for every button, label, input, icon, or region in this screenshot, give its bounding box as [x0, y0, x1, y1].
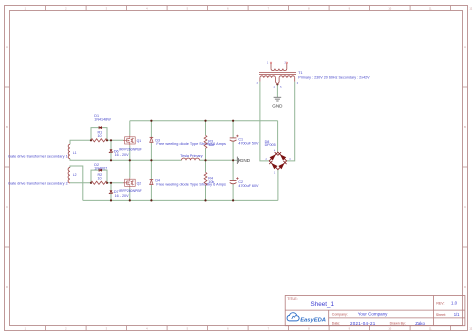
svg-text:C: C: [464, 205, 466, 209]
junction: [90, 182, 92, 184]
svg-text:Q1: Q1: [137, 139, 142, 143]
svg-text:1N4007: 1N4007: [94, 166, 107, 170]
svg-text:Zako: Zako: [415, 321, 425, 326]
junction: [90, 139, 92, 141]
svg-text:Gate drive transformer seconda: Gate drive transformer secondary 2: [8, 181, 68, 185]
bridge diode AC2-plus: [280, 154, 286, 160]
junction: [232, 120, 234, 122]
wire Q2 drain to midpoint: [129, 160, 131, 178]
wire C1 bottom lead: [232, 141, 234, 160]
svg-text:L1: L1: [73, 151, 77, 155]
inductor Tesla Primary: [182, 158, 200, 160]
svg-text:10: 10: [98, 176, 102, 180]
svg-text:16 - 20V: 16 - 20V: [115, 194, 129, 198]
inductor L1: [68, 144, 70, 158]
bridge rectifier D8: [269, 152, 286, 169]
wire top +V rail: [130, 120, 278, 122]
svg-text:1/1: 1/1: [454, 312, 460, 317]
wire D3 top lead: [150, 121, 152, 138]
transistor Q1: [125, 137, 136, 144]
wire GND rail mid: [200, 159, 234, 161]
svg-text:4700uF 60V: 4700uF 60V: [238, 184, 259, 188]
transformer T1 secondary windings: [260, 76, 276, 78]
EasyEDA logo: [287, 313, 326, 324]
svg-text:Tesla Primary: Tesla Primary: [180, 154, 202, 158]
ground GND mid rail: [237, 157, 239, 164]
wire GND stub: [233, 159, 237, 161]
svg-text:Date:: Date:: [332, 322, 340, 326]
bridge diode AC1-plus: [270, 154, 276, 160]
svg-text:10k: 10k: [208, 180, 214, 184]
svg-text:C: C: [6, 205, 8, 209]
T1 unconnected pin circles: [270, 62, 272, 64]
svg-text:Company:: Company:: [332, 312, 348, 316]
svg-text:EasyEDA: EasyEDA: [300, 317, 326, 323]
wire T1 secondary right to bridge AC2: [287, 82, 295, 161]
wire D2 loop: [91, 170, 107, 183]
svg-text:A: A: [464, 45, 466, 49]
diode D4: [150, 179, 154, 181]
wire midpoint rail left: [70, 159, 182, 161]
wire C1 top lead: [232, 121, 234, 138]
junction: [110, 139, 112, 141]
wire bottom -V rail: [83, 199, 278, 201]
junction: [106, 182, 108, 184]
svg-text:GND: GND: [272, 103, 283, 108]
wire Q1 source to midpoint: [129, 145, 131, 160]
ground GND transformer center tap: [274, 97, 282, 101]
junction: [150, 159, 152, 161]
svg-text:D: D: [6, 285, 8, 289]
bridge diode minus-AC2: [278, 163, 284, 169]
svg-text:TITLE:: TITLE:: [287, 297, 297, 301]
wire C2 top lead: [232, 160, 234, 180]
wire bridge minus to bottom rail: [277, 170, 279, 201]
diode D2: [99, 169, 102, 172]
junction: [232, 159, 234, 161]
wire R4 top lead: [205, 160, 207, 172]
wire D4 top lead: [150, 160, 152, 179]
capacitor C2: [230, 180, 237, 182]
wire R3 top lead: [205, 121, 207, 136]
diode D1: [99, 126, 102, 129]
resistor R4: [204, 172, 207, 185]
junction: [110, 159, 112, 161]
wire R4 bottom lead: [205, 185, 207, 200]
junction: [204, 159, 206, 161]
svg-text:Drawn By:: Drawn By:: [390, 322, 406, 326]
svg-text:Your Company: Your Company: [358, 311, 388, 316]
transistor Q2: [125, 179, 136, 186]
wire zener D6 branch: [110, 140, 112, 160]
capacitor C1: [230, 137, 237, 139]
svg-text:L2: L2: [73, 173, 77, 177]
svg-text:10k: 10k: [208, 143, 214, 147]
svg-text:DF005: DF005: [265, 143, 276, 147]
wire Q2 source to bottom rail: [129, 188, 131, 201]
resistor R1: [91, 139, 107, 142]
svg-text:2021-04-21: 2021-04-21: [350, 321, 376, 326]
resistor R3: [204, 135, 207, 148]
svg-text:IRFP260NPBF: IRFP260NPBF: [119, 189, 142, 193]
junction: [204, 120, 206, 122]
wire L1 top to R1: [70, 140, 91, 144]
junction: [150, 199, 152, 201]
junction: [106, 139, 108, 141]
svg-text:Gate drive transformer seconda: Gate drive transformer secondary 1: [8, 155, 68, 159]
transformer T1 primary winding: [270, 64, 272, 69]
title block: [285, 296, 465, 326]
wire L2 bottom to R2: [70, 182, 91, 184]
svg-text:1N4148W: 1N4148W: [94, 118, 111, 122]
junction: [110, 199, 112, 201]
junction: [129, 159, 131, 161]
zener diode D7: [110, 190, 113, 193]
junction: [150, 120, 152, 122]
resistor R2: [91, 181, 107, 184]
junction T1 center tap: [276, 83, 278, 85]
svg-text:B: B: [464, 125, 466, 129]
wire D1 loop: [91, 128, 107, 141]
bridge diode minus-AC1: [271, 163, 277, 169]
wire R2 to Q2 gate: [107, 182, 124, 184]
svg-text:IRFP260NPBF: IRFP260NPBF: [119, 148, 142, 152]
zener diode D6: [110, 149, 113, 152]
svg-text:10: 10: [98, 134, 102, 138]
svg-text:B: B: [6, 125, 8, 129]
wire R1 to Q1 gate: [107, 139, 124, 141]
junction: [129, 199, 131, 201]
wire T1 center tap to GND: [276, 84, 278, 97]
svg-text:Sheet:: Sheet:: [436, 313, 446, 317]
diode D3: [150, 136, 154, 138]
transformer T1 core: [259, 73, 296, 75]
svg-text:Sheet_1: Sheet_1: [311, 301, 335, 308]
wire L2 top routed to bottom rail: [70, 166, 83, 200]
junction: [204, 199, 206, 201]
inductor L2: [68, 168, 70, 183]
wire Q1 drain to +V rail: [129, 121, 131, 136]
svg-text:Free weeling diode Type Shottk: Free weeling diode Type Shottky 6 Amps: [156, 182, 226, 186]
wire C2 bottom lead: [232, 184, 234, 201]
svg-text:Q2: Q2: [137, 181, 142, 185]
wire +V rail to bridge plus: [277, 121, 279, 153]
wire D4 bottom lead: [150, 185, 152, 201]
junction: [232, 199, 234, 201]
wire zener D7 branch: [110, 183, 112, 201]
svg-text:D: D: [464, 285, 466, 289]
svg-text:REV:: REV:: [436, 302, 444, 306]
svg-text:1.0: 1.0: [451, 301, 458, 306]
wire T1 secondary left to bridge AC1: [260, 82, 269, 161]
svg-text:Free weeling diode Type Shottk: Free weeling diode Type Shottky 6 Amps: [156, 142, 226, 146]
svg-text:16 - 20V: 16 - 20V: [115, 153, 129, 157]
wire D3 bottom lead: [150, 143, 152, 161]
svg-text:A: A: [6, 45, 8, 49]
junction: [110, 182, 112, 184]
svg-text:4700uF 50V: 4700uF 50V: [238, 141, 259, 145]
wire R3 bottom lead: [205, 148, 207, 160]
svg-text:GND: GND: [240, 158, 251, 163]
svg-text:Primary : 230V 20 60Hz Seconda: Primary : 230V 20 60Hz Secondary : 2x42V: [298, 75, 370, 79]
